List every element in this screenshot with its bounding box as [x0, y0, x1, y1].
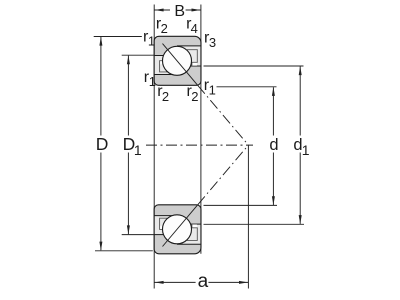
dimension d extension bottom [204, 204, 278, 206]
dimension d1 extension bottom [204, 223, 305, 225]
dimension d1 arrows [299, 66, 302, 75]
left face extension line [153, 5, 155, 289]
dimension D arrows [99, 37, 102, 46]
dimension D1 extension top [122, 54, 155, 56]
apex extension line [247, 145, 249, 288]
dimension D1 extension bottom [122, 234, 155, 236]
svg-text:1: 1 [209, 82, 216, 97]
dimension d line [272, 87, 274, 205]
dimension a line [154, 281, 248, 283]
dimension d extension top [217, 86, 277, 88]
svg-text:d: d [269, 136, 278, 154]
svg-text:a: a [198, 271, 209, 292]
svg-text:B: B [174, 3, 185, 20]
svg-text:3: 3 [209, 35, 216, 50]
dimension d1 extension top [204, 65, 304, 67]
svg-text:2: 2 [191, 89, 198, 104]
svg-text:1: 1 [149, 74, 156, 89]
svg-text:4: 4 [191, 21, 198, 36]
dimension D extension bottom [95, 250, 153, 252]
contact angle line upper (dash-dot to apex) [198, 85, 249, 145]
dimension B line [154, 9, 201, 11]
contact angle line lower (dash-dot to apex) [198, 145, 249, 205]
bearing section bottom (mirrored) [154, 205, 201, 254]
svg-text:2: 2 [161, 21, 168, 36]
svg-text:1: 1 [134, 142, 142, 158]
svg-text:1: 1 [302, 142, 310, 158]
right face extension line [200, 5, 202, 254]
dimension D line [100, 37, 102, 250]
center axis line [146, 144, 253, 146]
dimension B arrows [155, 9, 164, 12]
svg-text:1: 1 [148, 34, 155, 49]
bearing section top [154, 36, 201, 85]
dimension d1 line [299, 66, 301, 224]
dimension D1 arrows [127, 55, 130, 64]
dimension D1 line [127, 56, 129, 235]
svg-text:2: 2 [162, 89, 169, 104]
dimension a arrows [155, 281, 164, 284]
dimension D extension top [94, 36, 142, 38]
svg-text:D: D [96, 134, 109, 154]
dimension d arrows [272, 87, 275, 96]
